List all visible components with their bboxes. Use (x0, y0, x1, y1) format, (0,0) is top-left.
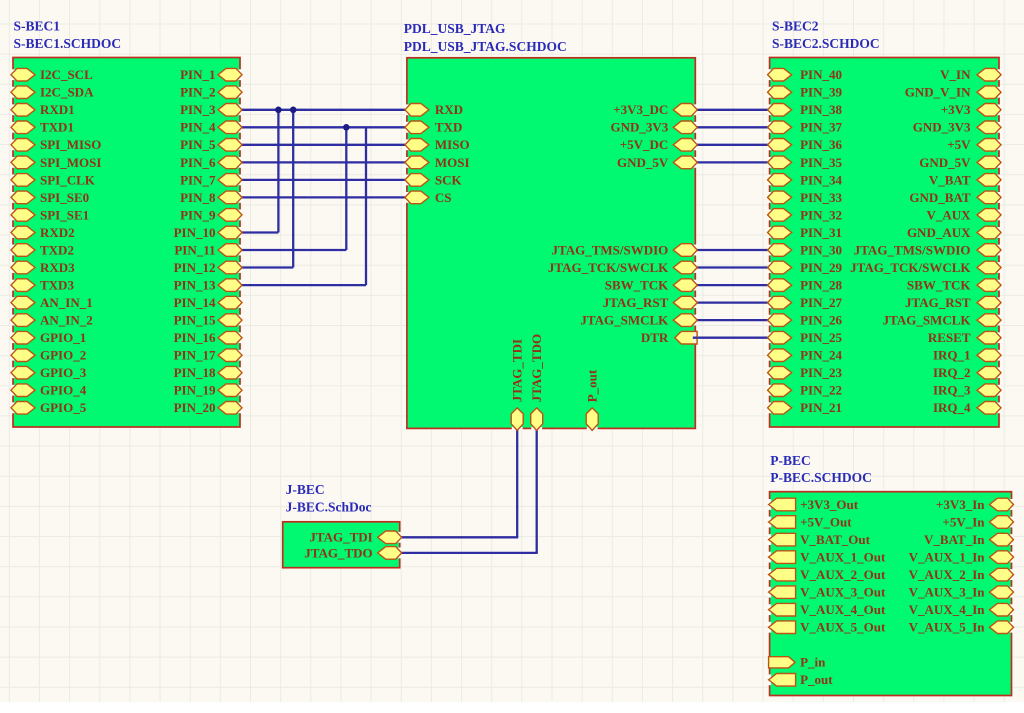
svg-text:V_IN: V_IN (940, 67, 971, 82)
svg-text:PIN_40: PIN_40 (800, 67, 842, 82)
svg-text:+3V3: +3V3 (941, 102, 971, 117)
svg-text:V_BAT_Out: V_BAT_Out (800, 532, 870, 547)
svg-text:PDL_USB_JTAG.SCHDOC: PDL_USB_JTAG.SCHDOC (404, 39, 567, 54)
svg-text:PIN_32: PIN_32 (800, 207, 842, 222)
svg-text:JTAG_TDO: JTAG_TDO (529, 334, 544, 402)
svg-text:V_AUX_2_Out: V_AUX_2_Out (800, 567, 886, 582)
svg-text:PIN_28: PIN_28 (800, 278, 842, 293)
svg-text:PIN_22: PIN_22 (800, 383, 842, 398)
svg-text:IRQ_3: IRQ_3 (933, 383, 971, 398)
svg-text:PIN_34: PIN_34 (800, 172, 842, 187)
svg-text:JTAG_SMCLK: JTAG_SMCLK (580, 313, 669, 328)
svg-text:PIN_12: PIN_12 (174, 260, 216, 275)
svg-text:PIN_4: PIN_4 (180, 120, 216, 135)
svg-text:PIN_16: PIN_16 (174, 330, 216, 345)
svg-text:PIN_25: PIN_25 (800, 330, 842, 345)
svg-text:RXD: RXD (435, 102, 463, 117)
svg-text:PIN_21: PIN_21 (800, 400, 842, 415)
svg-text:I2C_SDA: I2C_SDA (40, 85, 94, 100)
svg-text:I2C_SCL: I2C_SCL (40, 67, 93, 82)
svg-text:+5V: +5V (947, 137, 971, 152)
svg-text:PIN_26: PIN_26 (800, 313, 842, 328)
svg-text:JTAG_TDI: JTAG_TDI (510, 339, 525, 402)
svg-text:V_AUX_4_Out: V_AUX_4_Out (800, 602, 886, 617)
svg-text:PIN_39: PIN_39 (800, 85, 842, 100)
svg-text:V_AUX_3_Out: V_AUX_3_Out (800, 585, 886, 600)
svg-text:PIN_35: PIN_35 (800, 155, 842, 170)
svg-text:PIN_7: PIN_7 (180, 172, 216, 187)
svg-text:GND_5V: GND_5V (919, 155, 971, 170)
svg-text:PIN_17: PIN_17 (174, 348, 216, 363)
svg-text:P_out: P_out (585, 369, 600, 402)
svg-text:PIN_30: PIN_30 (800, 242, 842, 257)
svg-text:SBW_TCK: SBW_TCK (907, 278, 971, 293)
svg-text:GND_AUX: GND_AUX (907, 225, 971, 240)
svg-text:PIN_14: PIN_14 (174, 295, 216, 310)
svg-text:P_out: P_out (800, 672, 833, 687)
svg-text:PIN_2: PIN_2 (180, 85, 215, 100)
svg-text:V_AUX_5_Out: V_AUX_5_Out (800, 620, 886, 635)
svg-text:SPI_SE0: SPI_SE0 (40, 190, 89, 205)
svg-text:PIN_10: PIN_10 (174, 225, 216, 240)
svg-text:PIN_37: PIN_37 (800, 120, 842, 135)
svg-text:RXD1: RXD1 (40, 102, 75, 117)
svg-text:V_AUX_4_In: V_AUX_4_In (909, 602, 986, 617)
svg-text:V_BAT_In: V_BAT_In (924, 532, 985, 547)
svg-text:PIN_36: PIN_36 (800, 137, 842, 152)
svg-text:V_AUX_1_In: V_AUX_1_In (909, 550, 986, 565)
svg-text:SPI_CLK: SPI_CLK (40, 172, 96, 187)
svg-text:P_in: P_in (800, 655, 826, 670)
svg-text:PIN_3: PIN_3 (180, 102, 216, 117)
svg-text:SCK: SCK (435, 172, 463, 187)
svg-text:RXD3: RXD3 (40, 260, 75, 275)
svg-text:J-BEC: J-BEC (286, 482, 325, 497)
svg-text:JTAG_TDI: JTAG_TDI (309, 530, 372, 545)
svg-text:PIN_18: PIN_18 (174, 365, 216, 380)
svg-text:TXD2: TXD2 (40, 242, 74, 257)
svg-text:MOSI: MOSI (435, 155, 470, 170)
svg-text:GPIO_3: GPIO_3 (40, 365, 87, 380)
svg-text:+5V_Out: +5V_Out (800, 514, 852, 529)
svg-text:TXD1: TXD1 (40, 120, 74, 135)
svg-text:PDL_USB_JTAG: PDL_USB_JTAG (404, 21, 506, 36)
svg-text:JTAG_SMCLK: JTAG_SMCLK (883, 313, 972, 328)
svg-text:PIN_24: PIN_24 (800, 348, 842, 363)
svg-text:RESET: RESET (928, 330, 971, 345)
svg-text:PIN_29: PIN_29 (800, 260, 842, 275)
svg-text:PIN_9: PIN_9 (180, 207, 216, 222)
svg-text:PIN_1: PIN_1 (180, 67, 215, 82)
svg-text:IRQ_2: IRQ_2 (933, 365, 971, 380)
svg-text:V_AUX_2_In: V_AUX_2_In (909, 567, 986, 582)
svg-text:GPIO_1: GPIO_1 (40, 330, 86, 345)
svg-text:+3V3_Out: +3V3_Out (800, 497, 859, 512)
svg-text:GPIO_2: GPIO_2 (40, 348, 86, 363)
svg-text:GND_V_IN: GND_V_IN (905, 85, 971, 100)
svg-text:S-BEC2.SCHDOC: S-BEC2.SCHDOC (772, 36, 880, 51)
svg-text:SBW_TCK: SBW_TCK (605, 278, 669, 293)
svg-text:+5V_In: +5V_In (942, 514, 985, 529)
svg-text:SPI_MISO: SPI_MISO (40, 137, 101, 152)
svg-text:V_AUX: V_AUX (926, 207, 971, 222)
svg-text:J-BEC.SchDoc: J-BEC.SchDoc (286, 499, 372, 514)
svg-text:S-BEC1: S-BEC1 (14, 19, 61, 34)
svg-text:PIN_20: PIN_20 (174, 400, 216, 415)
svg-text:PIN_23: PIN_23 (800, 365, 842, 380)
svg-text:IRQ_4: IRQ_4 (933, 400, 971, 415)
svg-text:+3V3_In: +3V3_In (936, 497, 985, 512)
svg-text:PIN_13: PIN_13 (174, 278, 216, 293)
svg-text:+3V3_DC: +3V3_DC (613, 102, 668, 117)
svg-text:+5V_DC: +5V_DC (620, 137, 669, 152)
svg-text:GND_3V3: GND_3V3 (913, 120, 971, 135)
svg-text:PIN_38: PIN_38 (800, 102, 842, 117)
svg-text:AN_IN_1: AN_IN_1 (40, 295, 93, 310)
svg-text:PIN_27: PIN_27 (800, 295, 842, 310)
svg-text:JTAG_RST: JTAG_RST (603, 295, 669, 310)
svg-text:V_AUX_5_In: V_AUX_5_In (909, 620, 986, 635)
svg-text:JTAG_TCK/SWCLK: JTAG_TCK/SWCLK (548, 260, 669, 275)
svg-text:PIN_6: PIN_6 (180, 155, 216, 170)
svg-text:TXD3: TXD3 (40, 278, 74, 293)
svg-text:PIN_11: PIN_11 (174, 242, 215, 257)
svg-text:GND_3V3: GND_3V3 (611, 120, 669, 135)
svg-text:IRQ_1: IRQ_1 (933, 348, 971, 363)
svg-text:S-BEC1.SCHDOC: S-BEC1.SCHDOC (14, 36, 122, 51)
svg-text:V_AUX_1_Out: V_AUX_1_Out (800, 550, 886, 565)
svg-text:S-BEC2: S-BEC2 (772, 19, 819, 34)
svg-text:PIN_5: PIN_5 (180, 137, 216, 152)
svg-text:JTAG_TMS/SWDIO: JTAG_TMS/SWDIO (854, 242, 971, 257)
svg-text:GND_5V: GND_5V (617, 155, 669, 170)
svg-text:DTR: DTR (641, 330, 669, 345)
svg-text:PIN_31: PIN_31 (800, 225, 842, 240)
svg-text:P-BEC: P-BEC (770, 453, 811, 468)
svg-text:JTAG_TDO: JTAG_TDO (304, 545, 372, 560)
svg-text:PIN_33: PIN_33 (800, 190, 842, 205)
svg-text:GPIO_4: GPIO_4 (40, 383, 87, 398)
svg-text:PIN_8: PIN_8 (180, 190, 216, 205)
svg-text:GPIO_5: GPIO_5 (40, 400, 87, 415)
svg-text:V_BAT: V_BAT (929, 172, 971, 187)
svg-text:JTAG_RST: JTAG_RST (905, 295, 971, 310)
svg-text:RXD2: RXD2 (40, 225, 75, 240)
svg-text:MISO: MISO (435, 137, 470, 152)
svg-text:SPI_SE1: SPI_SE1 (40, 207, 89, 222)
svg-text:CS: CS (435, 190, 452, 205)
svg-text:PIN_15: PIN_15 (174, 313, 216, 328)
svg-text:JTAG_TCK/SWCLK: JTAG_TCK/SWCLK (850, 260, 971, 275)
svg-text:SPI_MOSI: SPI_MOSI (40, 155, 101, 170)
svg-text:JTAG_TMS/SWDIO: JTAG_TMS/SWDIO (552, 242, 669, 257)
svg-text:TXD: TXD (435, 120, 462, 135)
svg-text:GND_BAT: GND_BAT (909, 190, 970, 205)
svg-text:AN_IN_2: AN_IN_2 (40, 313, 93, 328)
svg-text:PIN_19: PIN_19 (174, 383, 216, 398)
svg-text:P-BEC.SCHDOC: P-BEC.SCHDOC (770, 470, 872, 485)
svg-text:V_AUX_3_In: V_AUX_3_In (909, 585, 986, 600)
